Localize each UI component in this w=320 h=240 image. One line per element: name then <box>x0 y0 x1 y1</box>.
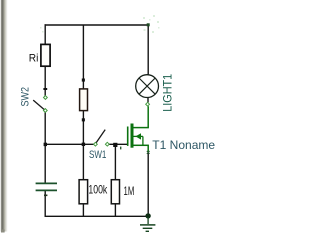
svg-text:LIGHT1: LIGHT1 <box>160 74 174 112</box>
svg-text:100k: 100k <box>88 183 108 197</box>
svg-text:SW1: SW1 <box>89 149 106 161</box>
svg-text:Ri: Ri <box>29 53 39 65</box>
svg-text:SW2: SW2 <box>19 87 31 107</box>
svg-text:1M: 1M <box>124 184 135 198</box>
svg-text:T1 Noname: T1 Noname <box>152 138 215 152</box>
